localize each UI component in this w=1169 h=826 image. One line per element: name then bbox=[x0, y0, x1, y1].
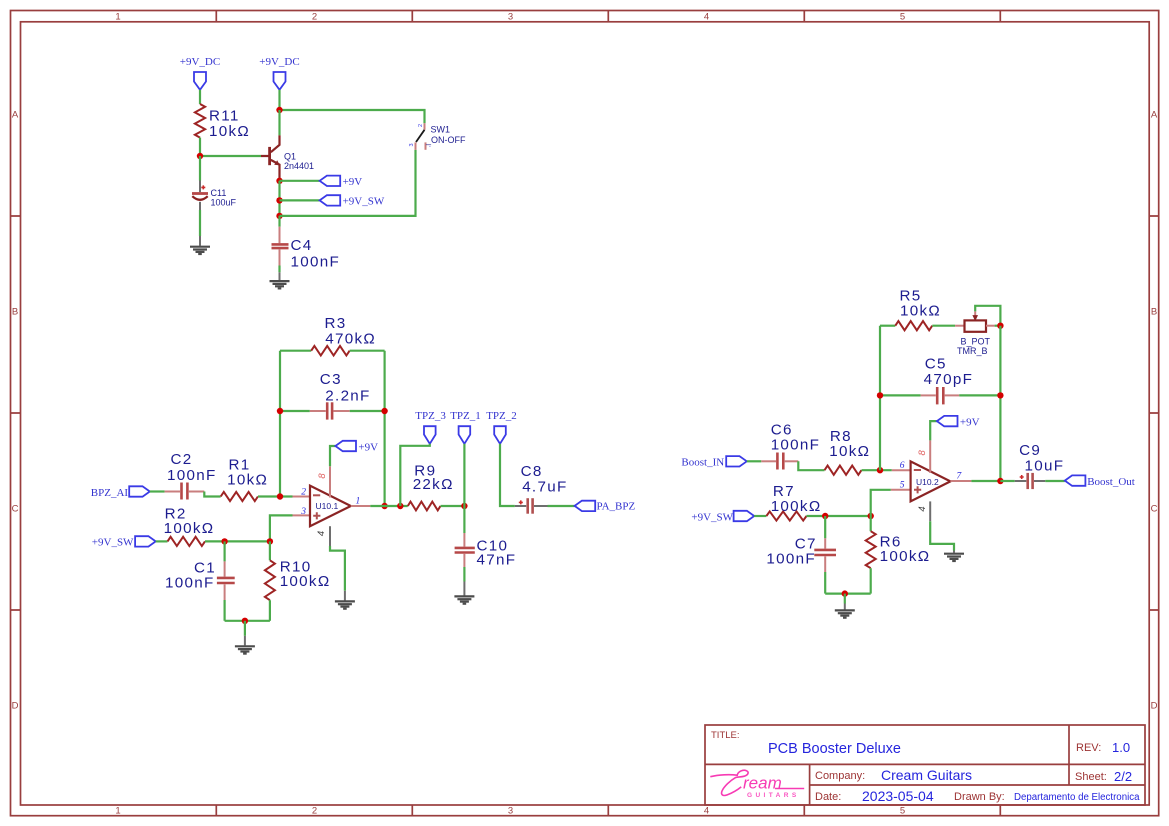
svg-text:22kΩ: 22kΩ bbox=[413, 476, 454, 493]
node output bbox=[381, 503, 387, 509]
wire bbox=[199, 210, 201, 236]
ground bbox=[835, 610, 855, 617]
capacitor C6 bbox=[761, 421, 820, 469]
capacitor C8 bbox=[515, 463, 568, 514]
wire bbox=[280, 180, 320, 182]
wire bbox=[269, 541, 271, 560]
wire bbox=[280, 410, 310, 412]
transistor Q1 bbox=[261, 135, 314, 181]
net label +9V_SW bbox=[135, 536, 156, 546]
frame row ticks left bbox=[11, 216, 21, 610]
wire pin5 net bbox=[871, 490, 891, 516]
capacitor C3 bbox=[310, 371, 371, 420]
svg-text:3: 3 bbox=[300, 507, 306, 517]
svg-text:Date:: Date: bbox=[815, 791, 841, 803]
node bbox=[397, 503, 403, 509]
svg-text:100nF: 100nF bbox=[291, 253, 341, 270]
svg-text:1: 1 bbox=[356, 497, 361, 507]
title block border bbox=[705, 725, 1145, 805]
logo Cream Guitars bbox=[710, 770, 804, 799]
wire bbox=[441, 505, 465, 507]
wire bbox=[370, 505, 408, 507]
wire bbox=[278, 216, 280, 227]
wire feedback left vertical bbox=[879, 326, 881, 471]
node bbox=[997, 392, 1003, 398]
svg-text:100kΩ: 100kΩ bbox=[280, 573, 331, 590]
node bbox=[276, 107, 282, 113]
svg-text:3: 3 bbox=[409, 143, 415, 146]
wire bbox=[880, 394, 921, 396]
wire stub bbox=[953, 551, 955, 553]
test point TPZ_3 bbox=[424, 426, 436, 444]
capacitor C10 bbox=[455, 533, 517, 569]
op-amp U10.1 bbox=[293, 466, 371, 546]
power flag +9V_DC (left) bbox=[194, 72, 206, 90]
svg-text:10uF: 10uF bbox=[1025, 457, 1065, 474]
svg-text:100nF: 100nF bbox=[766, 551, 816, 568]
net label PA_BPZ bbox=[575, 501, 596, 511]
svg-text:TITLE:: TITLE: bbox=[711, 730, 740, 741]
node emitter junction bbox=[276, 178, 282, 184]
wire bottom rail bbox=[225, 620, 270, 622]
svg-text:1: 1 bbox=[115, 806, 120, 817]
svg-text:470pF: 470pF bbox=[924, 371, 974, 388]
wire bbox=[156, 540, 168, 542]
svg-text:D: D bbox=[12, 701, 19, 712]
svg-text:1: 1 bbox=[115, 12, 120, 23]
ground bbox=[190, 247, 210, 254]
svg-text:3: 3 bbox=[508, 806, 513, 817]
svg-text:47nF: 47nF bbox=[477, 552, 517, 569]
wire bbox=[278, 266, 280, 273]
wire bbox=[463, 567, 465, 582]
svg-text:6: 6 bbox=[900, 461, 905, 471]
wire stub bbox=[844, 604, 846, 610]
node bbox=[877, 392, 883, 398]
wire bbox=[500, 444, 515, 506]
node bbox=[221, 538, 227, 544]
svg-text:10kΩ: 10kΩ bbox=[900, 303, 941, 320]
wire bbox=[844, 594, 846, 604]
wire bbox=[824, 572, 826, 594]
svg-text:2: 2 bbox=[312, 12, 317, 23]
wire bbox=[932, 325, 955, 327]
net label BPZ_AI bbox=[129, 486, 150, 496]
svg-text:+9V: +9V bbox=[358, 441, 378, 453]
ground bbox=[235, 646, 255, 653]
title block divider logo bbox=[809, 764, 811, 805]
wire bbox=[278, 181, 280, 216]
wire bbox=[199, 156, 201, 181]
svg-text:2.2nF: 2.2nF bbox=[325, 388, 370, 405]
svg-text:C4: C4 bbox=[291, 237, 313, 254]
wire stub bbox=[279, 272, 281, 280]
svg-text:2: 2 bbox=[301, 487, 306, 497]
wire bbox=[959, 394, 1000, 396]
wire bbox=[244, 621, 246, 636]
node bbox=[822, 513, 828, 519]
svg-text:REV:: REV: bbox=[1076, 742, 1101, 754]
svg-text:C: C bbox=[12, 504, 19, 515]
wire bbox=[463, 444, 465, 506]
svg-text:C3: C3 bbox=[320, 371, 342, 388]
wire stub bbox=[463, 582, 465, 596]
resistor R7 bbox=[766, 511, 806, 520]
svg-text:4.7uF: 4.7uF bbox=[522, 478, 567, 495]
svg-text:C: C bbox=[1151, 504, 1158, 515]
wire bbox=[463, 506, 465, 533]
node bbox=[461, 503, 467, 509]
capacitor C7 bbox=[766, 536, 836, 573]
wire pin8 to +9V bbox=[330, 446, 335, 466]
node output bbox=[997, 478, 1003, 484]
capacitor C1 bbox=[165, 559, 235, 600]
wire stub bbox=[344, 591, 346, 601]
wire bbox=[200, 155, 261, 157]
svg-text:Cream Guitars: Cream Guitars bbox=[881, 767, 972, 783]
svg-text:A: A bbox=[1151, 110, 1158, 121]
frame column ticks top bbox=[216, 11, 1000, 22]
svg-text:A: A bbox=[12, 110, 19, 121]
wire bbox=[548, 505, 575, 507]
svg-text:5: 5 bbox=[900, 12, 905, 23]
svg-text:Boost_IN: Boost_IN bbox=[681, 456, 724, 468]
capacitor C11 bbox=[192, 181, 237, 211]
node bbox=[267, 538, 273, 544]
resistor R10 bbox=[265, 560, 275, 600]
wire pin4 to ground bbox=[330, 546, 345, 591]
svg-text:2/2: 2/2 bbox=[1114, 769, 1132, 784]
net label Boost_Out bbox=[1065, 475, 1086, 485]
svg-text:+9V_SW: +9V_SW bbox=[691, 511, 733, 523]
wire bbox=[971, 480, 1000, 482]
node bbox=[276, 213, 282, 219]
svg-text:ream: ream bbox=[743, 774, 782, 793]
svg-text:100nF: 100nF bbox=[167, 467, 217, 484]
svg-text:+9V_DC: +9V_DC bbox=[180, 56, 220, 68]
wire switch return bbox=[280, 150, 416, 216]
test point TPZ_2 bbox=[494, 426, 506, 444]
svg-text:100kΩ: 100kΩ bbox=[880, 548, 931, 565]
svg-text:PCB Booster Deluxe: PCB Booster Deluxe bbox=[768, 741, 901, 757]
node base junction bbox=[197, 153, 203, 159]
svg-text:+9V_DC: +9V_DC bbox=[259, 56, 299, 68]
wire pin4 to ground bbox=[930, 521, 954, 550]
power flag +9V_DC (right) bbox=[274, 72, 286, 90]
svg-text:+9V: +9V bbox=[960, 416, 980, 428]
wire bbox=[400, 444, 430, 506]
wire pin3 net bbox=[270, 515, 293, 541]
svg-text:100kΩ: 100kΩ bbox=[164, 520, 215, 537]
resistor R5 bbox=[895, 321, 932, 330]
svg-text:100kΩ: 100kΩ bbox=[771, 498, 822, 515]
ground bbox=[335, 601, 355, 608]
svg-text:BPZ_AI: BPZ_AI bbox=[91, 487, 129, 499]
wire feedback right vertical bbox=[999, 326, 1001, 481]
wire bbox=[350, 410, 385, 412]
potentiometer B_POT bbox=[955, 311, 995, 356]
svg-text:SW1: SW1 bbox=[431, 125, 451, 135]
svg-text:_ON-OFF: _ON-OFF bbox=[425, 135, 466, 145]
svg-text:4: 4 bbox=[704, 806, 709, 817]
resistor R9 bbox=[408, 502, 441, 511]
svg-text:10kΩ: 10kΩ bbox=[209, 123, 250, 140]
wire bbox=[1045, 480, 1065, 482]
svg-text:TPZ_3: TPZ_3 bbox=[415, 410, 446, 422]
wire stub bbox=[199, 236, 201, 246]
wire bbox=[280, 199, 320, 201]
svg-text:Sheet:: Sheet: bbox=[1075, 771, 1107, 783]
capacitor C5 bbox=[921, 356, 974, 405]
svg-text:B: B bbox=[12, 307, 18, 318]
wire bbox=[204, 492, 220, 497]
svg-text:8: 8 bbox=[317, 473, 328, 479]
node bbox=[277, 493, 283, 499]
switch SW1 bbox=[409, 123, 466, 150]
wire bbox=[278, 110, 280, 135]
resistor R8 bbox=[825, 466, 862, 475]
svg-text:2023-05-04: 2023-05-04 bbox=[862, 788, 934, 804]
svg-text:PA_BPZ: PA_BPZ bbox=[597, 501, 636, 513]
wire bbox=[747, 460, 762, 462]
svg-text:7: 7 bbox=[957, 471, 963, 481]
node bbox=[277, 408, 283, 414]
capacitor C4 bbox=[272, 227, 341, 271]
op-amp U10.2 bbox=[891, 440, 972, 521]
resistor R6 bbox=[866, 531, 876, 568]
title block divider rev bbox=[1068, 725, 1070, 785]
wire bbox=[754, 515, 766, 517]
svg-text:TMR_B: TMR_B bbox=[957, 346, 988, 356]
svg-text:3: 3 bbox=[508, 12, 513, 23]
svg-text:C2: C2 bbox=[171, 451, 193, 468]
svg-text:470kΩ: 470kΩ bbox=[325, 330, 376, 347]
net label +9V bbox=[937, 416, 958, 426]
svg-text:TPZ_1: TPZ_1 bbox=[450, 410, 481, 422]
svg-text:U10.2: U10.2 bbox=[916, 477, 939, 487]
node bbox=[242, 618, 248, 624]
svg-text:1.0: 1.0 bbox=[1112, 740, 1130, 755]
wire pin8 to +9V bbox=[930, 421, 937, 440]
capacitor C2 bbox=[165, 451, 217, 499]
svg-text:Drawn By:: Drawn By: bbox=[954, 791, 1005, 803]
wire feedback right vertical bbox=[384, 351, 386, 506]
net label Boost_IN bbox=[726, 456, 747, 466]
wire bbox=[824, 516, 826, 538]
svg-text:2: 2 bbox=[312, 806, 317, 817]
svg-text:Boost_Out: Boost_Out bbox=[1087, 476, 1135, 488]
svg-text:+9V: +9V bbox=[343, 176, 363, 188]
title block row line 1 bbox=[705, 763, 1145, 765]
wire feedback left vertical bbox=[279, 351, 281, 497]
svg-text:Departamento de Electronica: Departamento de Electronica bbox=[1014, 792, 1140, 803]
node bbox=[381, 408, 387, 414]
svg-text:5: 5 bbox=[900, 806, 905, 817]
wire bbox=[350, 350, 385, 352]
wire bbox=[269, 600, 271, 621]
net label +9V bbox=[320, 176, 341, 186]
svg-text:B: B bbox=[1151, 307, 1157, 318]
svg-text:U10.1: U10.1 bbox=[316, 501, 339, 511]
wire bbox=[224, 541, 226, 561]
svg-text:TPZ_2: TPZ_2 bbox=[486, 410, 517, 422]
node bbox=[868, 513, 874, 519]
capacitor C9 bbox=[1015, 442, 1065, 489]
svg-text:R11: R11 bbox=[209, 108, 240, 125]
node bbox=[877, 467, 883, 473]
node bbox=[276, 197, 282, 203]
svg-text:100nF: 100nF bbox=[771, 437, 821, 454]
node bbox=[997, 323, 1003, 329]
wire wiper loop bbox=[975, 306, 1000, 326]
wire bbox=[150, 490, 165, 492]
svg-text:2n4401: 2n4401 bbox=[284, 161, 314, 171]
svg-text:4: 4 bbox=[704, 12, 709, 23]
wire bbox=[880, 325, 895, 327]
node bbox=[842, 590, 848, 596]
ground bbox=[270, 281, 290, 288]
ground bbox=[454, 596, 474, 603]
svg-text:D: D bbox=[1151, 701, 1158, 712]
wire bottom rail bbox=[825, 592, 871, 594]
net label +9V_SW bbox=[320, 195, 341, 205]
frame column ticks bottom bbox=[216, 805, 1000, 816]
svg-text:4: 4 bbox=[917, 506, 928, 511]
wire bbox=[995, 325, 1001, 327]
resistor R1 bbox=[221, 492, 258, 501]
resistor R11 bbox=[195, 104, 205, 138]
svg-text:5: 5 bbox=[900, 481, 905, 491]
svg-text:100uF: 100uF bbox=[211, 198, 237, 208]
wire bbox=[205, 540, 270, 542]
svg-text:100nF: 100nF bbox=[165, 574, 215, 591]
svg-text:Company:: Company: bbox=[815, 770, 865, 782]
wire bbox=[870, 516, 872, 531]
ground bbox=[944, 554, 964, 561]
wire bbox=[224, 600, 226, 621]
wire top rail to switch bbox=[280, 110, 425, 123]
resistor R3 bbox=[311, 346, 349, 356]
wire bbox=[798, 461, 824, 470]
wire bbox=[199, 138, 201, 156]
wire bbox=[870, 568, 872, 593]
svg-text:GUITARS: GUITARS bbox=[747, 792, 800, 799]
wire stub bbox=[244, 636, 246, 646]
svg-text:4: 4 bbox=[316, 531, 327, 536]
wire bbox=[258, 495, 293, 497]
test point TPZ_1 bbox=[459, 426, 471, 444]
net label +9V_SW bbox=[734, 511, 755, 521]
svg-text:8: 8 bbox=[917, 450, 928, 456]
title block row line 2 bbox=[810, 784, 1145, 786]
wire bbox=[862, 469, 892, 471]
resistor R2 bbox=[168, 537, 205, 546]
wire feedback top bbox=[280, 350, 311, 352]
svg-text:+9V_SW: +9V_SW bbox=[343, 196, 385, 208]
svg-text:2: 2 bbox=[418, 124, 424, 127]
svg-text:+9V_SW: +9V_SW bbox=[92, 536, 134, 548]
net label +9V bbox=[335, 441, 356, 451]
svg-text:10kΩ: 10kΩ bbox=[227, 471, 268, 488]
wire bbox=[1000, 480, 1014, 482]
wire bbox=[806, 515, 870, 517]
svg-text:10kΩ: 10kΩ bbox=[829, 443, 870, 460]
frame row ticks right bbox=[1149, 216, 1159, 610]
svg-text:C5: C5 bbox=[925, 356, 947, 373]
svg-text:Q1: Q1 bbox=[284, 151, 296, 161]
wire bbox=[278, 90, 280, 110]
wire bbox=[199, 90, 201, 104]
